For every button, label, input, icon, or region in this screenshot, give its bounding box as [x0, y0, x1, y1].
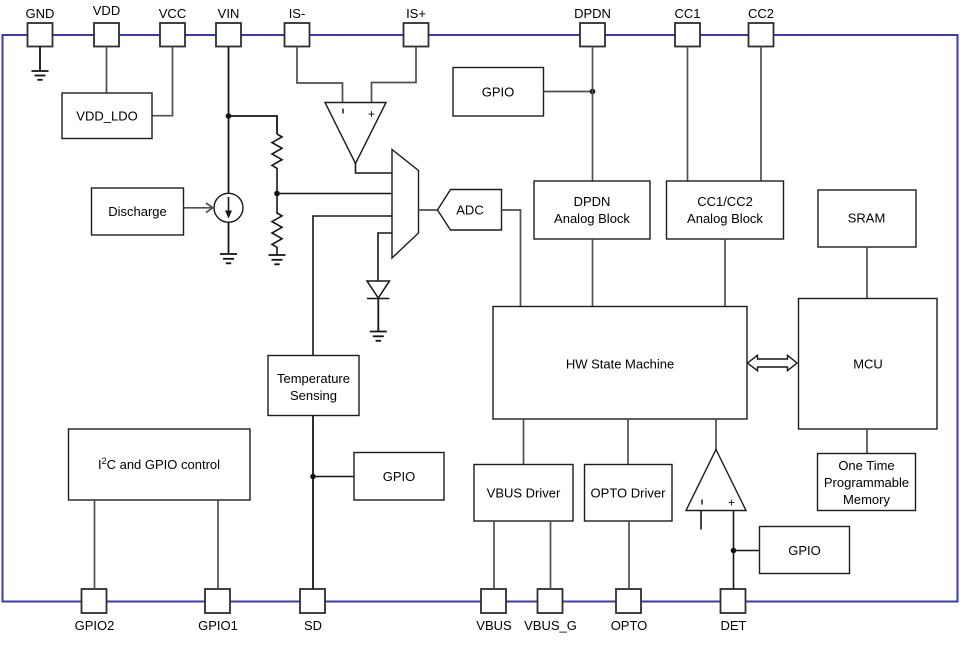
wire VBUS driver to VBUS_G pin: [550, 521, 552, 589]
wire IS- to comparator inverting input: [297, 47, 343, 103]
wire DPDN analog block to HW state machine: [592, 239, 594, 307]
svg-text:SD: SD: [304, 618, 322, 633]
wire VIN down to current source: [228, 47, 230, 194]
svg-text:I2C and GPIO control: I2C and GPIO control: [98, 456, 220, 472]
pin DPDN: [574, 6, 611, 47]
pin VBUS_G: [524, 589, 577, 633]
wire HW state machine to OPTO driver: [627, 419, 629, 465]
svg-text:DPDN: DPDN: [574, 6, 611, 21]
wire DPDN pin to DPDN analog block: [592, 47, 594, 182]
block OPTO Driver: [585, 465, 673, 522]
svg-text:VBUS_G: VBUS_G: [524, 618, 577, 633]
wire VDD to VDD_LDO: [106, 47, 108, 94]
block One Time Programmable Memory: [818, 454, 916, 511]
wire Discharge arrow to current source: [184, 203, 213, 213]
pin GPIO1: [198, 589, 238, 633]
svg-text:Memory: Memory: [843, 492, 890, 507]
svg-text:MCU: MCU: [853, 357, 883, 372]
svg-text:VIN: VIN: [218, 6, 240, 21]
block GPIO bottom: [760, 527, 850, 574]
wire IS+ to comparator non-inverting input: [372, 47, 417, 103]
junction SD GPIO tap: [310, 474, 316, 480]
op-amp current sense comparator: [325, 103, 386, 164]
wire MCU to OTP memory: [866, 429, 868, 454]
block VDD_LDO: [62, 93, 152, 139]
svg-text:CC1/CC2: CC1/CC2: [697, 194, 753, 209]
ground symbol under lower resistor: [269, 255, 286, 264]
svg-text:Programmable: Programmable: [824, 475, 909, 490]
wire CC analog block to HW state machine: [724, 239, 726, 307]
pin OPTO: [611, 589, 648, 633]
wire SRAM to MCU: [866, 247, 868, 299]
svg-text:VDD: VDD: [93, 3, 120, 18]
svg-text:VDD_LDO: VDD_LDO: [76, 109, 137, 124]
ADC block: [438, 190, 502, 231]
pin GPIO2: [75, 589, 115, 633]
diode D1: [367, 281, 390, 299]
junction DET GPIO tap: [731, 548, 737, 554]
block MCU: [799, 299, 938, 430]
block HW State Machine: [493, 307, 747, 420]
pin GND: [26, 6, 55, 47]
svg-text:Temperature: Temperature: [277, 371, 350, 386]
pin CC1: [674, 6, 700, 47]
wire HW state machine to VBUS driver: [523, 419, 525, 465]
pin VIN: [216, 6, 241, 47]
svg-text:HW State Machine: HW State Machine: [566, 357, 674, 372]
svg-text:GPIO: GPIO: [482, 85, 515, 100]
svg-text:GND: GND: [26, 6, 55, 21]
svg-text:IS-: IS-: [289, 6, 306, 21]
svg-text:DPDN: DPDN: [574, 194, 611, 209]
wire mux output to ADC: [419, 209, 438, 211]
wire tap to mux input 2: [277, 193, 392, 195]
svg-text:One Time: One Time: [838, 458, 894, 473]
current source I1: [214, 193, 243, 222]
pin SD: [300, 589, 325, 633]
junction VIN branch: [226, 113, 232, 119]
pin DET: [721, 589, 747, 633]
pin IS+: [404, 6, 429, 47]
svg-text:+: +: [368, 107, 375, 121]
svg-text:Sensing: Sensing: [290, 388, 337, 403]
svg-text:GPIO1: GPIO1: [198, 618, 238, 633]
wire I2C block to GPIO2 pin: [94, 500, 96, 589]
pin CC2: [748, 6, 774, 47]
mux analog multiplexer: [392, 150, 419, 259]
junction DPDN GPIO tap: [590, 89, 596, 95]
svg-text:IS+: IS+: [406, 6, 426, 21]
svg-text:Analog Block: Analog Block: [554, 211, 630, 226]
wire VBUS driver to VBUS pin: [493, 521, 495, 589]
svg-text:DET: DET: [721, 618, 747, 633]
block Discharge: [92, 188, 184, 235]
wire VDD_LDO to VCC: [152, 47, 173, 116]
wire HW state machine to DET comparator: [715, 419, 717, 450]
svg-text:GPIO2: GPIO2: [75, 618, 115, 633]
wire OPTO driver to OPTO pin: [628, 521, 630, 589]
svg-text:Discharge: Discharge: [108, 204, 167, 219]
wire GPIO top to DPDN net: [544, 91, 593, 93]
block DPDN Analog Block: [534, 181, 650, 239]
pin VCC: [159, 6, 186, 47]
resistor R upper: [272, 134, 282, 194]
svg-text:SRAM: SRAM: [848, 211, 886, 226]
wire temperature sensing to mux input 3: [313, 216, 392, 356]
wire comparator output to mux input 1: [356, 164, 393, 174]
svg-text:OPTO: OPTO: [611, 618, 648, 633]
resistor R lower: [272, 194, 282, 256]
wire DET pin to comparator: [733, 511, 735, 590]
pin VBUS: [476, 589, 512, 633]
svg-text:ADC: ADC: [456, 203, 483, 218]
svg-text:VBUS: VBUS: [476, 618, 512, 633]
bidirectional arrow HW state machine to MCU: [748, 355, 798, 370]
ground symbol under diode: [370, 332, 387, 341]
block I2C and GPIO control: [69, 429, 251, 500]
block GPIO top: [453, 68, 544, 117]
ground symbol under current source: [220, 254, 237, 263]
wire DET comparator inverting stub: [700, 511, 702, 530]
wire temperature sensing to SD pin: [312, 416, 314, 590]
wire SD net to GPIO mid: [313, 476, 354, 478]
svg-text:VCC: VCC: [159, 6, 186, 21]
op-amp DET comparator: [686, 450, 746, 511]
wire diode to ground: [377, 299, 379, 332]
svg-text:VBUS Driver: VBUS Driver: [487, 486, 561, 501]
svg-text:Analog Block: Analog Block: [687, 211, 763, 226]
block VBUS Driver: [474, 465, 573, 522]
svg-text:GPIO: GPIO: [788, 543, 821, 558]
svg-text:+: +: [728, 496, 735, 510]
svg-text:OPTO Driver: OPTO Driver: [591, 486, 667, 501]
pin VDD: [93, 3, 120, 47]
svg-text:GPIO: GPIO: [383, 469, 416, 484]
block GPIO mid: [354, 453, 444, 501]
wire CC2 pin to CC analog block: [760, 47, 762, 182]
block SRAM: [818, 190, 916, 247]
wire I2C block to GPIO1 pin: [217, 500, 219, 589]
wire diode to mux input 4: [378, 233, 392, 281]
wire ADC to HW state machine: [502, 210, 521, 307]
junction resistor divider tap: [274, 191, 280, 197]
wire VIN branch to resistor divider: [229, 116, 278, 134]
pin IS-: [285, 6, 310, 47]
block CC1/CC2 Analog Block: [667, 181, 784, 239]
ground symbol under GND pin: [32, 47, 49, 80]
svg-text:CC1: CC1: [674, 6, 700, 21]
wire current source to ground: [228, 222, 230, 254]
wire DET net to GPIO bottom: [734, 550, 760, 552]
block Temperature Sensing: [268, 356, 359, 416]
wire CC1 pin to CC analog block: [687, 47, 689, 182]
svg-text:CC2: CC2: [748, 6, 774, 21]
